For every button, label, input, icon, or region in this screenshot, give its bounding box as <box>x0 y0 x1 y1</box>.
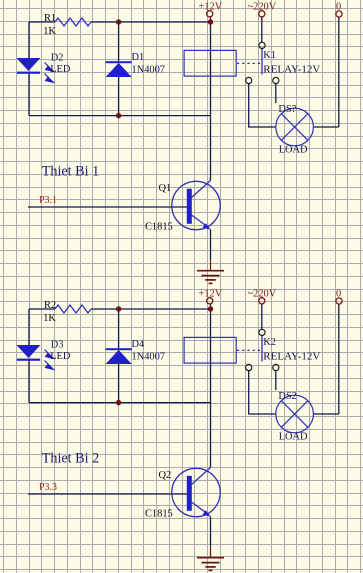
svg-text:~220V: ~220V <box>248 1 277 12</box>
svg-text:LOAD: LOAD <box>279 432 308 443</box>
svg-text:LED: LED <box>50 64 71 75</box>
svg-text:D1: D1 <box>132 52 145 63</box>
svg-text:0: 0 <box>336 2 341 13</box>
svg-text:1N4007: 1N4007 <box>132 351 165 362</box>
svg-text:LED: LED <box>50 351 71 362</box>
svg-text:1K: 1K <box>43 313 56 324</box>
svg-text:K2: K2 <box>263 337 276 348</box>
svg-text:1N4007: 1N4007 <box>132 64 165 75</box>
svg-text:P3.1: P3.1 <box>39 195 57 206</box>
svg-text:Thiet Bi 1: Thiet Bi 1 <box>42 163 100 179</box>
svg-text:RELAY-12V: RELAY-12V <box>263 64 320 76</box>
svg-text:K1: K1 <box>263 50 276 61</box>
svg-text:Q2: Q2 <box>159 470 172 481</box>
svg-text:Q1: Q1 <box>159 183 172 194</box>
svg-text:P3.3: P3.3 <box>39 482 57 493</box>
svg-text:R1: R1 <box>44 13 56 24</box>
svg-text:C1815: C1815 <box>145 222 173 233</box>
svg-text:C1815: C1815 <box>145 509 173 520</box>
svg-text:Thiet Bi 2: Thiet Bi 2 <box>42 450 100 466</box>
svg-text:D2: D2 <box>51 52 64 63</box>
svg-text:DS?: DS? <box>278 104 296 115</box>
svg-text:D3: D3 <box>51 339 64 350</box>
svg-text:R2: R2 <box>44 300 56 311</box>
svg-text:LOAD: LOAD <box>279 145 308 156</box>
svg-text:DS2: DS2 <box>278 391 296 402</box>
svg-text:+12V: +12V <box>199 1 223 12</box>
svg-text:D4: D4 <box>132 339 146 350</box>
svg-text:1K: 1K <box>43 26 56 37</box>
svg-text:RELAY-12V: RELAY-12V <box>263 351 320 363</box>
svg-text:~220V: ~220V <box>248 288 277 299</box>
svg-text:+12V: +12V <box>199 288 223 299</box>
svg-text:0: 0 <box>336 289 341 300</box>
